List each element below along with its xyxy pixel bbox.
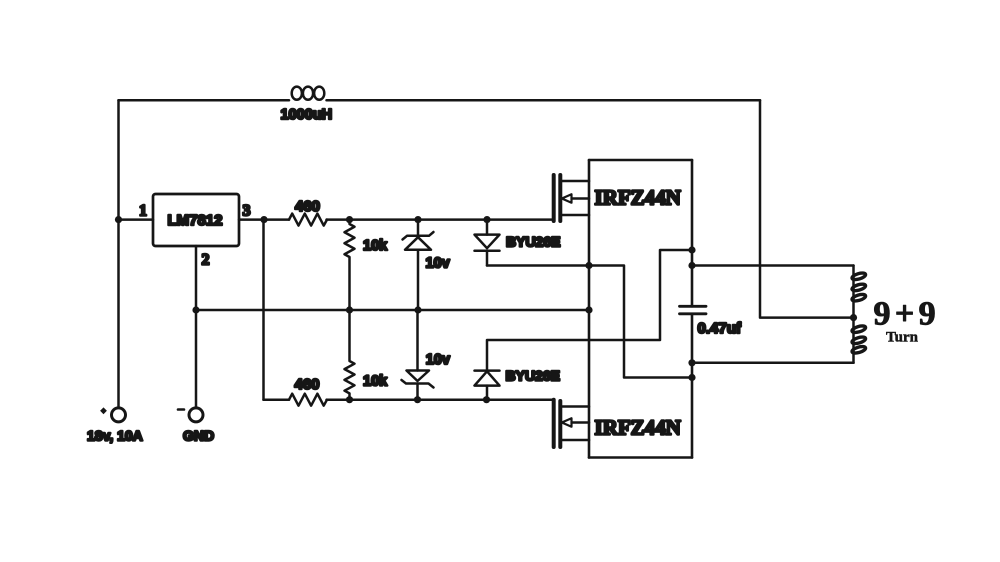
svg-text:460: 460: [295, 376, 320, 393]
svg-text:0.47uf: 0.47uf: [698, 320, 742, 337]
svg-text:18v, 10A: 18v, 10A: [87, 428, 143, 444]
wire: frame right edge lower (from capacitor bottom plate): [691, 314, 694, 458]
label: 10v (top): [426, 256, 450, 272]
node: junction dot where node A wire crosses left edge: [585, 262, 592, 269]
coil T1 work coil 9+9 turn (right side): [851, 266, 866, 363]
pin number 1: [139, 203, 147, 220]
svg-text:10k: 10k: [363, 238, 388, 254]
svg-text:1000uH: 1000uH: [281, 107, 333, 123]
resistor R1 460 (top, horizontal zigzag): [289, 214, 327, 226]
node: junction dot D1 bottom on GND rail: [414, 306, 421, 313]
node: junction dot capacitor top node: [688, 262, 695, 269]
node: junction dot capacitor bottom node: [688, 359, 695, 366]
node: junction dot at R4 bottom: [346, 396, 353, 403]
label: IRFZ44N (top): [595, 185, 681, 209]
node: junction dot at zener D2 bottom: [414, 396, 421, 403]
transistor Q1 IRFZ44N (top MOSFET): [554, 175, 589, 221]
zener diode D2 10v (bottom, triangle apex down, bar with hooks below): [402, 310, 434, 400]
svg-text:10v: 10v: [426, 352, 450, 368]
wire: frame left edge (drain/source bus): [588, 160, 591, 458]
node: junction dot coil center tap: [850, 314, 857, 321]
wire: capacitor bottom node to coil bottom end: [692, 362, 854, 365]
pin number 2: [202, 252, 210, 269]
inductor L 1000uH (three loops on top rail): [292, 87, 325, 100]
wire: bottom gate rail from R3 to MOSFET Q2 gate: [327, 398, 554, 401]
node: junction dot at diode D3 top: [483, 216, 490, 223]
node: junction dot at +12V output node: [260, 216, 267, 223]
label: 1000uH value: [281, 107, 333, 123]
wire: pin 2 lead down to GND terminal: [195, 246, 198, 408]
label: BYU26E (top): [506, 233, 560, 249]
label: 460 (bottom): [295, 376, 320, 393]
terminal: + supply input circle: [112, 408, 126, 422]
diode D3 BYU26E (top, triangle apex down): [475, 220, 500, 266]
wire: left vertical from top rail to + terminal: [117, 100, 120, 407]
label: LM7812: [168, 212, 223, 229]
wire: pin 1 lead into LM7812: [119, 218, 154, 221]
resistor R3 460 (bottom, horizontal zigzag): [289, 394, 327, 406]
resistor R2 10k (top, vertical zigzag): [345, 220, 355, 310]
svg-text:IRFZ44N: IRFZ44N: [595, 415, 681, 439]
label: 460 (top): [295, 198, 320, 215]
node: junction dot feedback at right edge: [688, 246, 695, 253]
svg-text:IRFZ44N: IRFZ44N: [595, 185, 681, 209]
svg-text:LM7812: LM7812: [168, 212, 223, 229]
wire: frame bottom edge: [589, 456, 692, 459]
symbol: minus polarity dash: [178, 408, 184, 411]
wire: top +18V rail from inductor to right corner: [327, 99, 761, 102]
label: 18v, 10A: [87, 428, 143, 444]
wire: frame top edge: [589, 159, 692, 162]
wire: top +18V rail from left corner to inductor: [119, 99, 290, 102]
svg-text:BYU26E: BYU26E: [506, 233, 560, 249]
label: 9+9: [874, 296, 941, 333]
wire: capacitor top node to coil top end: [692, 264, 854, 267]
terminal: GND circle: [189, 408, 203, 422]
label: IRFZ44N (bottom): [595, 415, 681, 439]
wire: +12V vertical from pin 3 node down to bottom gate rail: [262, 220, 265, 400]
wire: pin 3 output lead to resistor R1: [239, 218, 289, 221]
wire: node A from D3 bottom right then down then right to right edge: [487, 266, 692, 378]
svg-text:GND: GND: [183, 427, 214, 443]
label: 0.47uf: [698, 320, 742, 337]
wire: top gate rail from R1 to MOSFET Q1 gate: [327, 218, 554, 221]
node: junction dot R2 bottom on GND rail: [346, 306, 353, 313]
svg-text:BYU26E: BYU26E: [506, 367, 560, 383]
node: junction dot GND rail at frame left edge: [585, 306, 592, 313]
svg-text:10k: 10k: [363, 374, 388, 390]
label: 10v (bottom): [426, 352, 450, 368]
symbol: plus polarity diamond: [100, 407, 107, 414]
node: junction dot input node at pin 1 branch: [115, 216, 122, 223]
svg-text:10v: 10v: [426, 256, 450, 272]
node: junction dot at R2 top: [346, 216, 353, 223]
node: junction dot GND rail start: [192, 306, 199, 313]
transistor Q2 IRFZ44N (bottom MOSFET): [554, 400, 589, 447]
zener diode D1 10v (top, cathode bar up with hooks, triangle apex up): [403, 220, 434, 310]
regulator U1 LM7812 (box): [153, 194, 239, 246]
wire: GND rail to frame left edge: [196, 309, 589, 312]
diode D4 BYU26E (bottom, triangle apex up, bar on top): [475, 371, 500, 400]
label: Turn: [886, 330, 919, 346]
wire: center tap left then up to top rail: [760, 100, 854, 317]
label: GND: [183, 427, 214, 443]
svg-text:1: 1: [139, 203, 147, 220]
svg-text:Turn: Turn: [886, 330, 919, 346]
resistor R4 10k (bottom, vertical zigzag): [345, 310, 355, 400]
svg-text:2: 2: [202, 252, 210, 269]
wire: gate-2 feedback from right edge left then down to rail: [487, 250, 692, 371]
node: junction dot at zener D1 top: [414, 216, 421, 223]
wire: frame right edge upper (to capacitor top plate): [691, 160, 694, 306]
svg-text:460: 460: [295, 198, 320, 215]
svg-text:9+9: 9+9: [874, 296, 941, 333]
label: 10k (bottom): [363, 374, 388, 390]
node: junction dot node A at right edge: [688, 374, 695, 381]
capacitor C1 0.47uf (plates): [680, 306, 707, 314]
label: BYU26E (bottom): [506, 367, 560, 383]
node: junction dot at diode D4 bottom: [483, 396, 490, 403]
svg-text:3: 3: [243, 203, 251, 220]
wire: bottom gate rail to resistor R3: [264, 398, 290, 401]
label: 10k (top): [363, 238, 388, 254]
pin number 3: [243, 203, 251, 220]
